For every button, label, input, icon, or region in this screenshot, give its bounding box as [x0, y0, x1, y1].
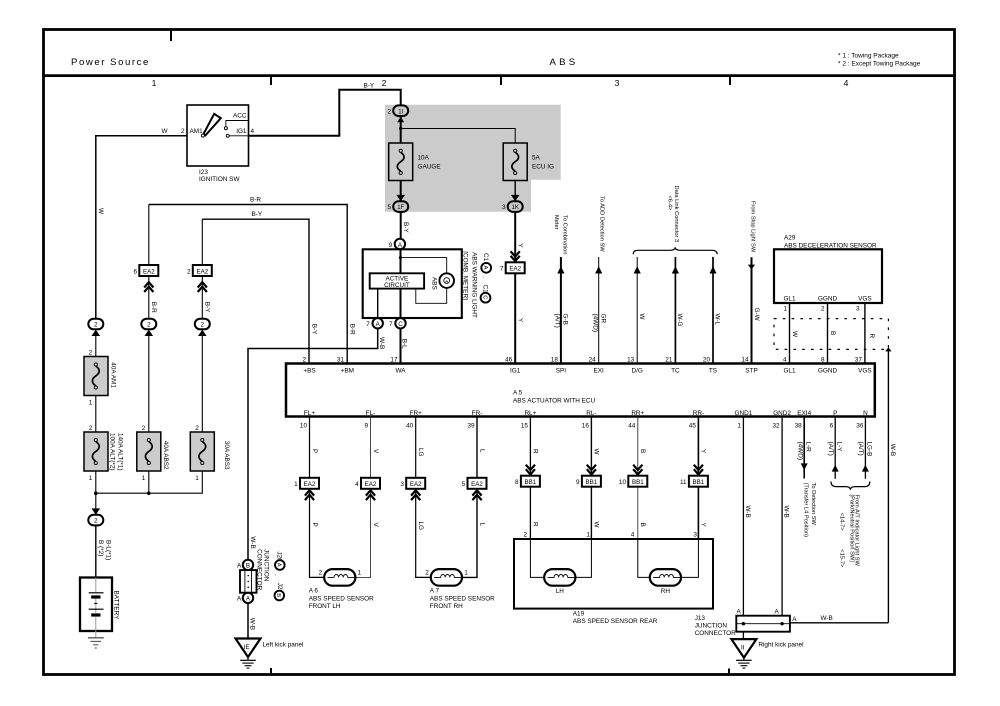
svg-text:P: P: [311, 449, 318, 453]
svg-text:LH: LH: [556, 588, 565, 595]
svg-text:GR: GR: [599, 314, 606, 324]
oval connector 1I: [387, 105, 408, 122]
svg-text:32: 32: [772, 422, 780, 429]
svg-text:W-B: W-B: [744, 506, 751, 518]
svg-text:[COMB. METER]: [COMB. METER]: [461, 251, 468, 300]
svg-text:C: C: [481, 295, 487, 299]
svg-text:A: A: [237, 596, 242, 603]
svg-text:W-B: W-B: [249, 618, 256, 630]
fuse 40A ABS2: [137, 425, 169, 482]
svg-text:IG1: IG1: [236, 128, 247, 135]
svg-text:B: B: [246, 563, 250, 570]
connector 8 BB1: [515, 465, 540, 487]
wire RL+ R: [529, 417, 531, 540]
svg-text:B-L(*1): B-L(*1): [104, 540, 111, 560]
svg-text:FRONT RH: FRONT RH: [430, 603, 463, 610]
svg-text:* 1 : Towing Package: * 1 : Towing Package: [838, 53, 899, 60]
ruler tick 2-3: [500, 77, 502, 85]
svg-text:VGS: VGS: [858, 296, 872, 303]
svg-text:BATTERY: BATTERY: [112, 591, 119, 621]
svg-text:To Detection SW: To Detection SW: [810, 483, 816, 526]
svg-text:(A/T): (A/T): [857, 442, 864, 456]
actuator top pin names: [303, 367, 871, 374]
svg-text:24: 24: [589, 357, 597, 364]
connector J20 A: [275, 551, 285, 569]
svg-text:W: W: [791, 331, 798, 338]
connector 2 EA2: [187, 265, 212, 292]
ABS actuator with ECU box A5: [286, 364, 875, 417]
svg-text:(4WD): (4WD): [796, 442, 803, 460]
A29 ABS deceleration sensor: [774, 235, 882, 304]
svg-text:L-R: L-R: [804, 442, 811, 453]
rear sensor RH: [650, 569, 681, 595]
connector 10 BB1: [619, 465, 647, 487]
svg-text:R: R: [532, 522, 539, 527]
wire EXI4 L-R to detection SW: [801, 417, 808, 479]
svg-text:C: C: [398, 321, 403, 328]
junction connector box (W-B column): [240, 570, 257, 593]
svg-text:B (*2): B (*2): [97, 540, 104, 556]
svg-text:.: .: [481, 276, 488, 278]
combination meter box: [363, 249, 462, 318]
connector 9 BB1: [576, 465, 601, 487]
svg-text:5: 5: [387, 204, 391, 211]
svg-text:B-R: B-R: [348, 324, 355, 335]
svg-text:7: 7: [366, 321, 370, 328]
rear speed sensor box A19: [514, 532, 713, 625]
svg-text:2: 2: [89, 350, 93, 357]
junction connector A circle (W-B column): [237, 593, 253, 603]
svg-text:AM1: AM1: [190, 128, 204, 135]
svg-text:BB1: BB1: [632, 479, 644, 486]
svg-text:21: 21: [665, 357, 673, 364]
svg-text:EA2: EA2: [304, 481, 316, 488]
wire GND2 W-B: [781, 417, 783, 624]
oval connector 2 (col3): [195, 319, 210, 432]
svg-text:Right kick panel: Right kick panel: [758, 642, 803, 649]
svg-text:GL1: GL1: [783, 296, 796, 303]
svg-text:3: 3: [502, 204, 506, 211]
ground IE left kick panel: [236, 639, 304, 669]
connector refs C10 C11: [481, 253, 492, 303]
svg-text:ABS SPEED SENSOR: ABS SPEED SENSOR: [309, 595, 374, 602]
svg-text:WA: WA: [395, 367, 406, 374]
svg-text:A: A: [792, 616, 797, 623]
svg-text:10A: 10A: [418, 155, 430, 162]
svg-text:B-R: B-R: [250, 197, 261, 204]
svg-text:IG1: IG1: [510, 367, 521, 374]
wire B-Y from IG1 to connector 1I: [249, 90, 401, 136]
wire Y from 1K to EA2: [514, 212, 516, 262]
wire RR- Y: [697, 417, 699, 540]
wire inside meter to active circuit: [399, 249, 447, 273]
svg-text:From Stop Light SW: From Stop Light SW: [750, 201, 756, 253]
svg-text:FR-: FR-: [472, 410, 483, 417]
svg-text:G-W: G-W: [753, 308, 760, 322]
wire VGS: [864, 303, 866, 364]
svg-text:EA2: EA2: [143, 268, 155, 275]
svg-text:31: 31: [337, 357, 345, 364]
junction connector B circle (W-B column): [237, 560, 253, 570]
svg-text:2: 2: [821, 306, 825, 313]
svg-text:1: 1: [294, 481, 298, 488]
svg-text:GL1: GL1: [783, 367, 796, 374]
IG1 contact: [226, 134, 229, 137]
svg-text:3: 3: [856, 306, 860, 313]
svg-text:A 7: A 7: [430, 587, 440, 594]
svg-text:+BS: +BS: [303, 367, 315, 374]
svg-text:5: 5: [462, 481, 466, 488]
svg-text:B-L: B-L: [401, 339, 408, 349]
circle connector 7 C: [389, 318, 406, 328]
svg-text:W-B: W-B: [783, 506, 790, 518]
ABS warning light bulb: [430, 273, 454, 289]
wire W-B shield drain down right side: [885, 347, 891, 622]
svg-text:EA2: EA2: [196, 268, 208, 275]
svg-text:ABS ACTUATOR WITH ECU: ABS ACTUATOR WITH ECU: [513, 397, 596, 404]
svg-text:C1: C1: [482, 285, 489, 294]
svg-text:II: II: [741, 645, 745, 652]
svg-text:N: N: [863, 410, 868, 417]
svg-text:IE: IE: [244, 644, 250, 651]
oval connector 2 (col1 top): [88, 319, 103, 357]
svg-text:W-B: W-B: [889, 444, 896, 456]
svg-text:(4WD): (4WD): [591, 314, 598, 332]
svg-text:5A: 5A: [532, 155, 541, 162]
wire FL+ P: [310, 417, 325, 578]
svg-text:EA2: EA2: [509, 266, 521, 273]
wire STP from stop light sw: [748, 257, 755, 363]
ACC contact: [224, 127, 227, 130]
svg-text:(A/T): (A/T): [827, 442, 834, 456]
svg-text:TC: TC: [671, 367, 680, 374]
svg-text:P: P: [833, 410, 837, 417]
wire FL- V: [355, 417, 370, 578]
svg-text:15: 15: [521, 422, 529, 429]
wire Y EA2 to IG1 pin: [514, 273, 516, 363]
svg-text:FL+: FL+: [304, 410, 315, 417]
wire D/G: [634, 257, 641, 364]
svg-text:RL+: RL+: [524, 410, 536, 417]
svg-text:ABS: ABS: [550, 57, 579, 68]
header separator line: [42, 74, 956, 77]
svg-text:EA2: EA2: [410, 481, 422, 488]
svg-text:A 6: A 6: [309, 587, 319, 594]
svg-text:4: 4: [251, 128, 255, 135]
wire SPI to combination meter: [557, 257, 564, 364]
ground II right kick panel: [731, 639, 803, 668]
svg-text:EA2: EA2: [365, 481, 377, 488]
svg-text:FL-: FL-: [366, 410, 376, 417]
svg-text:GND2: GND2: [773, 410, 791, 417]
svg-text:B: B: [639, 449, 646, 453]
brace under P and N: [831, 482, 870, 490]
wire active circuit to connector A: [377, 289, 379, 319]
svg-text:STP: STP: [745, 367, 757, 374]
svg-text:44: 44: [628, 422, 636, 429]
svg-text:2: 2: [94, 322, 98, 329]
wire GND1 below J13 to ground: [742, 632, 744, 639]
wire B-Y horizontal: [202, 219, 309, 363]
svg-text:W: W: [97, 208, 104, 215]
svg-text:BB1: BB1: [586, 479, 598, 486]
wire W-B to IE ground: [247, 603, 249, 638]
svg-text:CONNECTOR: CONNECTOR: [256, 549, 263, 590]
wire gauge fuse to 1F: [400, 181, 402, 202]
svg-text:Data Link Connector 3: Data Link Connector 3: [673, 186, 679, 243]
wire TC: [672, 257, 679, 364]
ignition switch I23: [181, 105, 255, 183]
svg-text:1: 1: [586, 532, 590, 539]
ruler tick 1-2: [270, 77, 272, 85]
bottom border tick: [270, 668, 272, 675]
svg-text:B-Y: B-Y: [364, 83, 375, 90]
svg-text:To ADD Detection SW: To ADD Detection SW: [598, 196, 604, 252]
svg-text:B-Y: B-Y: [252, 211, 263, 218]
wire GGND: [827, 303, 829, 364]
svg-text:W-B: W-B: [249, 536, 256, 548]
svg-text:EA2: EA2: [471, 481, 483, 488]
wire EXI to ADD detection SW: [595, 257, 602, 364]
svg-text:ABS: ABS: [430, 277, 437, 290]
svg-text:.: .: [273, 574, 280, 576]
svg-text:2: 2: [382, 78, 387, 88]
svg-text:W: W: [638, 314, 645, 321]
gray panel behind gauge fuses: [385, 105, 561, 212]
svg-text:[Park/Neutral Position SW]: [Park/Neutral Position SW]: [848, 495, 854, 563]
wire W from ignition AM1 to column 1: [96, 136, 187, 319]
svg-text:R: R: [532, 449, 539, 454]
svg-text:LG: LG: [417, 448, 424, 457]
svg-text:G-B: G-B: [562, 314, 569, 325]
circle connector 7 A: [366, 318, 383, 328]
svg-text:B: B: [639, 523, 646, 527]
svg-text:2: 2: [319, 569, 323, 576]
wire GL1: [789, 303, 791, 364]
svg-text:18: 18: [551, 357, 559, 364]
svg-text:ABS WARNING LIGHT: ABS WARNING LIGHT: [471, 252, 478, 318]
svg-text:L: L: [478, 449, 485, 453]
wire B-L connector C to WA pin: [400, 329, 402, 364]
svg-text:LG: LG: [417, 522, 424, 531]
svg-text:W: W: [593, 522, 600, 529]
svg-text:40A AM1: 40A AM1: [109, 362, 116, 388]
svg-text:C1: C1: [482, 253, 489, 262]
svg-text:W-G: W-G: [676, 314, 683, 327]
svg-text:1: 1: [464, 569, 468, 576]
svg-text:RH: RH: [661, 588, 671, 595]
wire B-L to battery: [95, 525, 97, 577]
svg-text:2: 2: [302, 357, 306, 364]
svg-text:9: 9: [364, 422, 368, 429]
svg-text:W: W: [593, 449, 600, 456]
svg-text:A19: A19: [573, 610, 585, 617]
svg-text:6: 6: [830, 422, 834, 429]
svg-text:46: 46: [505, 357, 513, 364]
svg-text:ACC: ACC: [233, 113, 247, 120]
fuse 140A/100A ALT: [84, 425, 124, 482]
svg-text:SPI: SPI: [556, 367, 567, 374]
junction connector J13: [695, 609, 798, 637]
svg-text:ABS SPEED SENSOR: ABS SPEED SENSOR: [430, 595, 495, 602]
connector 7 EA2: [500, 251, 525, 273]
bottom border tick right: [728, 669, 730, 676]
svg-text:2: 2: [181, 128, 185, 135]
battery ground: [88, 638, 104, 648]
svg-text:B: B: [829, 331, 836, 335]
svg-text:8: 8: [515, 479, 519, 486]
svg-text:J13: J13: [695, 615, 706, 622]
wires inside A19 to RH sensor: [638, 539, 699, 577]
oval connector 2 (battery): [88, 493, 103, 525]
svg-text:2: 2: [195, 425, 199, 432]
svg-text:1: 1: [195, 475, 199, 482]
svg-text:2: 2: [523, 532, 527, 539]
svg-text:(A/T): (A/T): [554, 314, 561, 328]
svg-text:1K: 1K: [512, 205, 519, 211]
svg-text:FR+: FR+: [410, 410, 423, 417]
svg-text:1: 1: [89, 400, 93, 407]
svg-text:9: 9: [388, 242, 392, 249]
svg-text:LG-B: LG-B: [865, 442, 872, 457]
battery: [80, 578, 119, 638]
wire FR+ LG: [416, 417, 431, 578]
svg-text:EXI: EXI: [594, 367, 605, 374]
ABS speed sensor front LH A6: [309, 569, 374, 610]
svg-text:IGNITION SW: IGNITION SW: [199, 176, 240, 183]
wire P L-Y: [832, 417, 839, 479]
svg-text:10: 10: [300, 422, 308, 429]
wire bulb to active circuit: [416, 288, 447, 303]
svg-text:<15-7>: <15-7>: [839, 549, 845, 568]
svg-text:4: 4: [355, 481, 359, 488]
svg-text:Y: Y: [700, 523, 707, 528]
junction bus below fuses: [94, 471, 202, 495]
fuse 30A ABS3: [190, 425, 230, 482]
svg-text:13: 13: [627, 357, 635, 364]
svg-text:P: P: [311, 523, 318, 527]
svg-text:L-Y: L-Y: [835, 442, 842, 453]
svg-text:R: R: [868, 334, 875, 339]
top border tick: [170, 30, 172, 41]
rear sensor LH: [544, 569, 575, 595]
ABS speed sensor front RH A7: [425, 569, 495, 610]
wire FR- L: [462, 417, 477, 578]
actuator top pin numbers: [302, 357, 862, 364]
wire 1I to fuses junction: [399, 116, 515, 143]
wires inside A19 to LH sensor: [530, 539, 591, 577]
svg-text:7: 7: [500, 266, 504, 273]
wire W-B from connector A to junction column: [248, 329, 378, 560]
svg-text:2: 2: [94, 518, 98, 525]
svg-text:TS: TS: [709, 367, 717, 374]
svg-text:V: V: [372, 449, 379, 454]
svg-text:GGND: GGND: [818, 367, 838, 374]
wire column3 B-Y vertical: [201, 219, 203, 319]
svg-text:20: 20: [703, 357, 711, 364]
svg-text:2: 2: [147, 322, 151, 329]
wire W-B horizontal to J13: [790, 622, 889, 624]
svg-text:ECU IG: ECU IG: [532, 164, 554, 171]
svg-text:1: 1: [358, 569, 362, 576]
svg-text:36: 36: [856, 422, 864, 429]
svg-text:W-B: W-B: [821, 615, 833, 622]
svg-text:B-Y: B-Y: [310, 324, 317, 335]
svg-text:FRONT LH: FRONT LH: [309, 603, 341, 610]
svg-text:140A ALT(*1): 140A ALT(*1): [117, 433, 124, 471]
svg-text:1F: 1F: [397, 205, 404, 211]
svg-text:3: 3: [615, 78, 620, 88]
switch lever: [204, 114, 221, 136]
svg-text:JUNCTION: JUNCTION: [263, 549, 270, 582]
svg-text:BB1: BB1: [525, 479, 537, 486]
connector 5 EA2: [462, 478, 487, 500]
svg-text:<14-7>: <14-7>: [839, 513, 845, 532]
connector J21 B: [273, 574, 284, 600]
svg-text:Left kick panel: Left kick panel: [263, 642, 304, 649]
svg-text:RL-: RL-: [586, 410, 596, 417]
shield dashed box: [774, 319, 888, 350]
oval connector 2 (col2): [141, 319, 156, 432]
svg-text:RR-: RR-: [693, 410, 704, 417]
svg-text:100A ALT(*2): 100A ALT(*2): [109, 433, 116, 471]
svg-text:4: 4: [783, 357, 787, 364]
svg-text:38: 38: [795, 422, 803, 429]
connector 4 EA2: [355, 478, 380, 500]
data link connector brace: [633, 247, 717, 254]
svg-text:14: 14: [741, 357, 749, 364]
svg-text:30A ABS3: 30A ABS3: [223, 441, 230, 470]
svg-text:JUNCTION: JUNCTION: [695, 623, 728, 630]
fuse 10A GAUGE: [389, 143, 441, 181]
svg-text:(Transfer L4 Position): (Transfer L4 Position): [803, 483, 809, 538]
svg-text:1: 1: [737, 422, 741, 429]
svg-text:7: 7: [389, 321, 393, 328]
wire TS: [709, 257, 716, 364]
wire B-R horizontal: [149, 205, 347, 364]
svg-text:39: 39: [467, 422, 475, 429]
svg-text:2: 2: [201, 322, 205, 329]
svg-text:Y: Y: [517, 318, 524, 323]
svg-text:V: V: [372, 523, 379, 528]
svg-text:A29: A29: [784, 235, 796, 242]
wire RR+ B: [637, 417, 639, 540]
svg-text:1: 1: [89, 475, 93, 482]
svg-text:2: 2: [187, 268, 191, 275]
actuator bottom pin numbers: [300, 422, 864, 429]
svg-text:3: 3: [693, 532, 697, 539]
connector 3 EA2: [400, 478, 425, 500]
connector 6 EA2: [133, 265, 158, 292]
svg-text:BB1: BB1: [693, 479, 705, 486]
connector 1 EA2: [294, 478, 319, 500]
svg-text:3: 3: [400, 481, 404, 488]
oval connector 1K: [502, 195, 523, 212]
svg-text:8: 8: [821, 357, 825, 364]
connector 11 BB1: [680, 465, 708, 487]
ruler tick 3-4: [729, 77, 731, 85]
svg-text:Power Source: Power Source: [71, 57, 150, 68]
svg-text:4: 4: [631, 532, 635, 539]
svg-text:W: W: [161, 128, 168, 135]
svg-text:* 2 : Except Towing Package: * 2 : Except Towing Package: [838, 61, 921, 68]
svg-text:B-R: B-R: [150, 302, 157, 313]
wire active circuit to connector C: [400, 289, 402, 319]
svg-text:16: 16: [582, 422, 590, 429]
actuator bottom pin names: [304, 410, 868, 417]
svg-text:+BM: +BM: [341, 367, 354, 374]
fuse 5A ECU IG: [503, 143, 554, 181]
